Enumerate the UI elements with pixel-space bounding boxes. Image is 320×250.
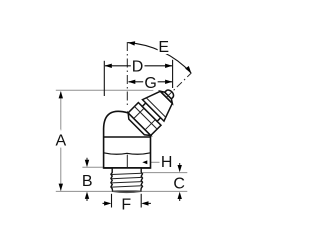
svg-text:A: A <box>55 133 66 150</box>
svg-text:G: G <box>144 75 156 92</box>
svg-text:B: B <box>82 173 93 190</box>
svg-text:D: D <box>132 59 144 76</box>
svg-text:F: F <box>121 197 131 214</box>
svg-text:E: E <box>158 39 169 56</box>
svg-text:H: H <box>161 154 173 171</box>
svg-text:C: C <box>173 176 185 193</box>
